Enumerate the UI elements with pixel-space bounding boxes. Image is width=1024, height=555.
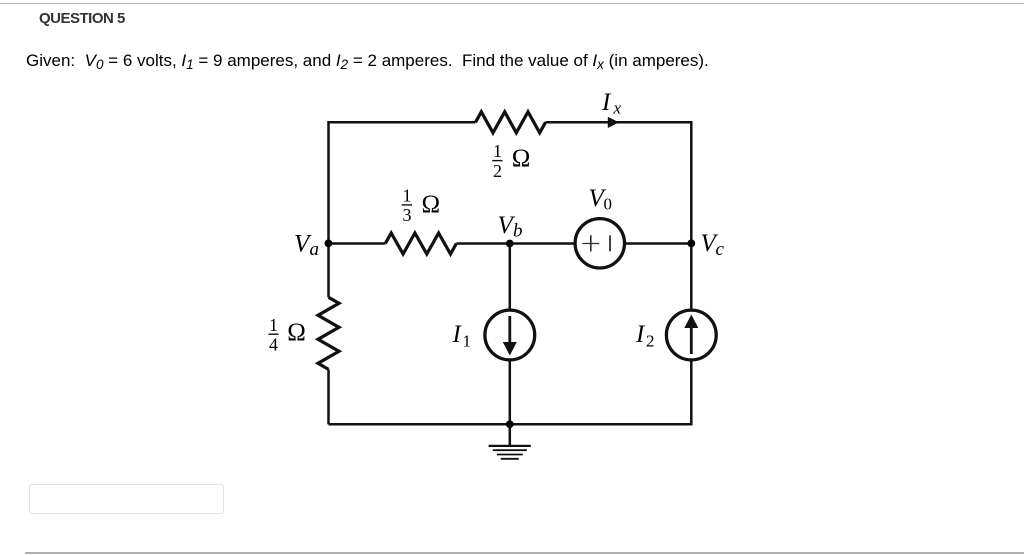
- svg-text:c: c: [716, 239, 725, 260]
- resistor R quarter-ohm (left): [318, 297, 339, 369]
- label Ix: [601, 89, 622, 118]
- ground: [489, 424, 531, 459]
- label Vc: [701, 230, 725, 260]
- wire from middle resistor to V0 source: [456, 242, 575, 245]
- svg-text:3: 3: [403, 205, 412, 225]
- node Vb: [506, 240, 514, 248]
- wire from node Vb down to I1 source: [509, 244, 512, 311]
- svg-text:I: I: [635, 321, 646, 348]
- label Vb: [498, 212, 523, 242]
- svg-text:2: 2: [646, 331, 655, 350]
- voltage source U V0: [575, 219, 624, 268]
- current source I2: [666, 310, 716, 360]
- svg-text:1: 1: [493, 141, 502, 161]
- label I2: [635, 321, 655, 350]
- svg-text:2: 2: [493, 161, 502, 181]
- svg-text:Ω: Ω: [287, 319, 306, 346]
- svg-text:4: 4: [269, 335, 278, 355]
- svg-text:I: I: [601, 89, 612, 116]
- wire bottom and lower-right side: [329, 360, 692, 424]
- svg-text:x: x: [613, 99, 622, 118]
- svg-text:1: 1: [463, 331, 472, 350]
- node Va: [325, 240, 333, 248]
- label V0: [589, 185, 613, 214]
- label 1/4 ohm: [268, 315, 305, 355]
- svg-text:b: b: [513, 221, 523, 242]
- svg-text:Ω: Ω: [422, 191, 441, 218]
- label 1/2 ohm: [492, 141, 530, 181]
- svg-text:1: 1: [403, 186, 412, 206]
- wire from I1 source to bottom wire: [509, 360, 512, 424]
- current arrow Ix on top wire: [608, 117, 619, 128]
- svg-text:Ω: Ω: [512, 145, 531, 172]
- node Vc: [687, 240, 695, 248]
- wire from V0 source to node Vc: [625, 242, 692, 245]
- resistor R half-ohm (top): [476, 112, 546, 133]
- label Va: [294, 230, 319, 260]
- resistor R third-ohm (middle): [385, 233, 456, 254]
- svg-text:a: a: [310, 239, 320, 260]
- svg-text:0: 0: [604, 195, 613, 214]
- wire top-right segment: [546, 122, 692, 310]
- wire top-left corner and upper-left side: [329, 122, 476, 297]
- label 1/3 ohm: [402, 186, 440, 226]
- wire lower-left side: [327, 369, 330, 424]
- svg-text:I: I: [452, 321, 463, 348]
- current source I1: [485, 310, 535, 360]
- svg-text:1: 1: [269, 315, 278, 335]
- wire middle horizontal left segment: [329, 242, 386, 245]
- label I1: [452, 321, 472, 350]
- node ground junction: [506, 420, 514, 428]
